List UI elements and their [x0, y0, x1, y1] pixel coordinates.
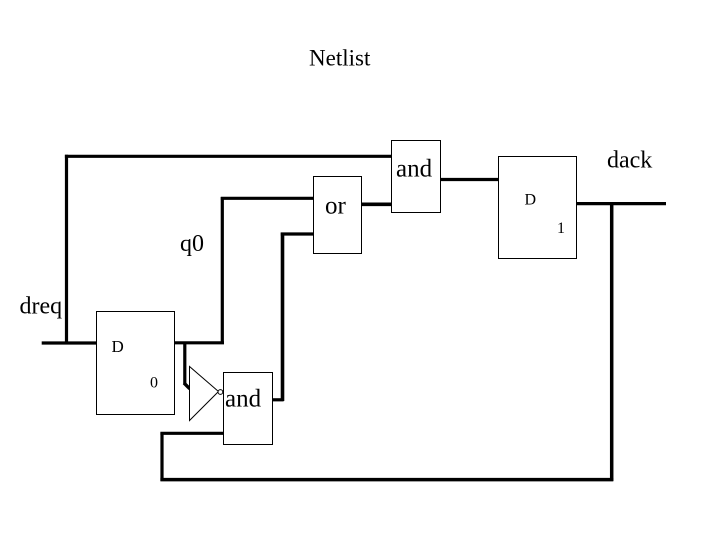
wire q0 vertical riser x=222 — [221, 197, 224, 344]
svg-text:D: D — [112, 337, 124, 356]
inverter U6 bubble — [218, 390, 223, 395]
wire horizontal into OR input B — [281, 232, 314, 235]
svg-text:0: 0 — [150, 374, 158, 391]
and gate U1 (top) box — [392, 141, 441, 213]
wire left vertical rail (dreq feedback) — [65, 155, 68, 344]
svg-text:1: 1 — [557, 220, 565, 237]
inverter U6 triangle — [190, 367, 219, 421]
wire into AND2 input — [160, 432, 224, 435]
and gate U5 (lower) box — [224, 373, 273, 445]
d flip-flop U4 (left) box — [97, 312, 175, 415]
wire bottom horizontal return — [160, 478, 613, 482]
svg-text:Netlist: Netlist — [309, 46, 371, 71]
wire q0 horizontal into OR input A — [221, 197, 314, 200]
wire dack vertical drop x=611.5 — [610, 204, 614, 481]
svg-text:D: D — [525, 192, 537, 209]
wire AND1 output to D1 input — [440, 178, 500, 181]
wire OR output to AND1 input B — [360, 203, 392, 207]
wire AND2 output to riser — [271, 398, 284, 401]
wire D0 output horizontal (q0 net) — [173, 341, 224, 344]
wire riser x=282 to OR input B — [281, 233, 285, 402]
or gate U2 box — [314, 177, 362, 254]
wire stub down to inverter input — [183, 343, 186, 384]
svg-text:and: and — [396, 156, 433, 183]
svg-text:and: and — [225, 386, 262, 413]
svg-text:q0: q0 — [180, 231, 204, 257]
d flip-flop U3 (right) box — [499, 157, 577, 259]
svg-text:or: or — [325, 193, 347, 220]
wire top horizontal net (left rail to AND1 input A) — [65, 155, 392, 158]
svg-text:dack: dack — [607, 148, 652, 174]
svg-text:dreq: dreq — [20, 294, 63, 320]
wire bottom-left vertical riser x=162 — [160, 433, 163, 482]
wire hook into inverter — [184, 383, 190, 389]
wire D1 output (dack net) — [577, 202, 667, 205]
wire dreq input stub — [42, 341, 97, 344]
